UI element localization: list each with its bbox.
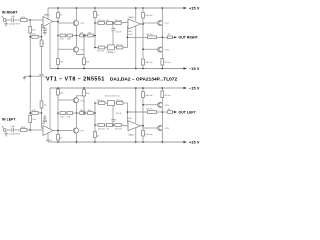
wire VT7 base bbox=[58, 130, 73, 132]
svg-text:+15 V: +15 V bbox=[189, 7, 200, 11]
op-amp DA1.1 V- supply wire bbox=[49, 24, 51, 68]
trimmer RP1 bbox=[108, 42, 117, 50]
wire bbox=[85, 112, 87, 114]
resistor R9 bbox=[98, 22, 106, 25]
junction x30 row77 bbox=[29, 75, 31, 77]
resistor R22 row113 bbox=[32, 112, 42, 115]
svg-text:−15 V: −15 V bbox=[189, 87, 200, 91]
ground below C2 bbox=[43, 33, 47, 35]
junction x58 emitter row bbox=[57, 35, 59, 37]
wire VT8 emitter to out row2 bbox=[161, 112, 163, 125]
wire VT1 collector to rail bbox=[76, 8, 78, 20]
junction x30 row37 bbox=[29, 36, 31, 38]
svg-text:DA1.1: DA1.1 bbox=[44, 14, 51, 17]
resistor R38a from bottom rail bbox=[142, 98, 145, 143]
wire VT4 base bbox=[143, 48, 158, 50]
wire VT5 emitter bbox=[77, 96, 85, 98]
svg-text:68 Ом: 68 Ом bbox=[147, 34, 154, 36]
transistor VT8 bbox=[158, 125, 163, 130]
+15V top rail bbox=[48, 7, 187, 9]
wire inverting input up bbox=[42, 113, 44, 128]
svg-text:68 Ом: 68 Ом bbox=[117, 100, 124, 102]
wire VT5 collector down bbox=[76, 103, 78, 113]
resistor R30 from bottom rail bbox=[94, 103, 97, 143]
svg-text:OUT LEFT: OUT LEFT bbox=[179, 110, 197, 114]
svg-text:DA1,DA2 – OPA2134P...TL072: DA1,DA2 – OPA2134P...TL072 bbox=[110, 77, 177, 83]
resistor R26 bbox=[60, 112, 66, 115]
junction R37 rail2 bbox=[83, 87, 85, 89]
resistor R32 bbox=[106, 124, 114, 127]
svg-text:VT1 – VT8 – 2N5551: VT1 – VT8 – 2N5551 bbox=[46, 76, 105, 82]
wire bbox=[66, 35, 67, 37]
ground at input jack bbox=[4, 21, 8, 26]
+15V bottom rail bbox=[48, 141, 187, 143]
svg-text:68 Ом: 68 Ом bbox=[147, 109, 154, 111]
resistor R12 bbox=[99, 46, 108, 49]
ground at input jack XS2 bbox=[4, 131, 8, 136]
svg-text:СМЕЩ. 0: СМЕЩ. 0 bbox=[107, 52, 117, 54]
junction DA2.2 V+ rail bbox=[135, 141, 137, 143]
resistor R25 vertical from bottom rail bbox=[57, 113, 60, 142]
resistor R40 out row2 bbox=[148, 111, 168, 114]
wire VT5 base bbox=[58, 99, 73, 101]
resistor R21 x40.5 lower bbox=[40, 101, 43, 113]
op-amp DA2.2 V+ supply wire bbox=[135, 128, 137, 142]
wire VT1 emitter bbox=[76, 26, 78, 36]
out row wire bbox=[128, 36, 148, 38]
junction emitter out row2 bbox=[162, 111, 164, 113]
junction DA1.2 V+ rail bbox=[135, 7, 137, 9]
node B2 junction on bottom rail x58 bbox=[57, 141, 59, 143]
resistor R40b out bbox=[167, 111, 177, 114]
wire bbox=[85, 35, 87, 37]
junction R41 rail2 bbox=[162, 87, 164, 89]
wire bbox=[66, 112, 67, 114]
wire VT7 emitter bbox=[76, 113, 78, 128]
svg-text:IN RIGHT: IN RIGHT bbox=[2, 11, 18, 15]
resistor R20 row37 bbox=[32, 35, 42, 38]
resistor R36 vertical bbox=[57, 88, 60, 95]
wire x58 up bbox=[57, 95, 59, 113]
wire VT6 base bbox=[143, 104, 158, 106]
node DA2.1 output junction bbox=[57, 130, 59, 132]
ground row77 bbox=[23, 76, 27, 80]
input jack XS1 bbox=[2, 16, 12, 22]
transistor VT5 bbox=[73, 98, 78, 103]
junction DA2.2 out bbox=[142, 125, 144, 127]
svg-text:300 Ом: 300 Ом bbox=[145, 95, 153, 97]
svg-text:−15 V: −15 V bbox=[189, 67, 200, 71]
capacitor C1 bbox=[12, 18, 22, 22]
trimmer row wire bbox=[95, 47, 99, 49]
transistor VT4 bbox=[158, 47, 163, 52]
svg-text:100 Ом: 100 Ом bbox=[98, 20, 106, 22]
junction R36 rail2 bbox=[57, 87, 59, 89]
node B junction on rail x58 bbox=[57, 7, 59, 9]
wire x30 long vertical bbox=[29, 37, 31, 116]
svg-text:100 Ом: 100 Ом bbox=[145, 134, 153, 136]
-15V rail upper bbox=[50, 67, 187, 69]
junction wiper cap tap2 bbox=[112, 124, 114, 126]
resistor R7 bbox=[88, 34, 95, 37]
wire VT3 emitter bbox=[77, 52, 85, 54]
ground above C7 bbox=[43, 116, 47, 118]
wire VT4 collector up to out row bbox=[161, 37, 163, 47]
capacitor C9 wiper chain2 bbox=[111, 107, 115, 125]
resistor R28 bbox=[80, 112, 85, 115]
junction VT2 collector rail bbox=[162, 7, 164, 9]
resistor R41 emitter vertical bbox=[161, 88, 164, 102]
wire bbox=[73, 35, 80, 37]
svg-text:1 µF: 1 µF bbox=[11, 16, 16, 18]
op-amp DA2.1 bbox=[43, 126, 58, 136]
svg-text:68 Ом: 68 Ом bbox=[117, 44, 124, 46]
resistor R16 vertical bbox=[142, 59, 145, 69]
wire VT8 collector to bottom rail bbox=[161, 131, 163, 142]
svg-text:82 Ом: 82 Ом bbox=[165, 62, 172, 64]
junction base2 x143 bbox=[142, 104, 144, 106]
junction R15 rail bbox=[83, 68, 85, 70]
junction DA1.2 Vminus rail bbox=[135, 68, 137, 70]
wire VT2 collector to rail bbox=[161, 8, 163, 20]
wire VT3 base bbox=[58, 48, 73, 50]
svg-text:0.25µФ К73: 0.25µФ К73 bbox=[9, 133, 21, 136]
junction R14 rail bbox=[57, 68, 59, 70]
wire VT2 base from x143 bbox=[143, 22, 158, 24]
resistor R2 vertical bbox=[29, 20, 32, 37]
junction VT8 collector rail bbox=[162, 141, 164, 143]
node out junction x143 bottom rail bbox=[142, 141, 144, 143]
wire VT6 collector down to out row2 bbox=[161, 107, 163, 112]
op-amp DA1.2 V- supply wire bbox=[135, 26, 137, 69]
svg-text:100 Ом: 100 Ом bbox=[97, 50, 105, 52]
node out junction x143 rail bbox=[142, 7, 144, 9]
resistor R1 bbox=[21, 19, 44, 22]
wire series row start bbox=[95, 22, 98, 24]
resistor R24 bbox=[21, 129, 44, 132]
junction VT7 collector rail bbox=[76, 141, 78, 143]
junction VT1 collector rail bbox=[76, 7, 78, 9]
resistor R31 bbox=[98, 124, 106, 127]
resistor R14 vertical bbox=[57, 59, 60, 69]
capacitor C4 wiper chain bbox=[111, 23, 115, 42]
junction R19 rail bbox=[162, 68, 164, 70]
transistor VT3 bbox=[73, 47, 78, 52]
op-amp DA2.2 bbox=[128, 121, 143, 131]
resistor R29 bbox=[88, 112, 95, 115]
svg-text:DA1.2: DA1.2 bbox=[129, 16, 136, 19]
svg-text:100 Ом: 100 Ом bbox=[145, 15, 153, 17]
svg-text:DA2.1: DA2.1 bbox=[46, 139, 53, 142]
transistor VT7 bbox=[73, 128, 78, 134]
resistor R3 vertical from rail bbox=[57, 8, 60, 36]
svg-text:100 Ом: 100 Ом bbox=[98, 129, 106, 131]
junction DA1.2 out bbox=[142, 23, 144, 25]
resistor R23 x30 vertical bbox=[29, 116, 32, 131]
junction x95 series row bbox=[94, 22, 96, 24]
op-amp supply wire from +15 bottom rail bbox=[47, 133, 49, 142]
junction x95 series row2 bbox=[94, 124, 96, 126]
junction feedback out row bbox=[127, 37, 129, 39]
wire VT1 base bbox=[58, 22, 73, 24]
wire bbox=[73, 112, 80, 114]
wire series row2 start bbox=[95, 124, 98, 126]
resistor R8 from rail bbox=[94, 7, 97, 47]
resistor R27 bbox=[67, 112, 73, 115]
wire inverting input down bbox=[42, 25, 44, 37]
resistor R6 bbox=[80, 34, 85, 37]
wire x58 down bbox=[57, 36, 59, 59]
junction x95 trimmer row2 bbox=[94, 102, 96, 104]
svg-text:300 Ом: 300 Ом bbox=[145, 62, 153, 64]
-15V rail lower bbox=[50, 87, 187, 89]
wire VT7 collector to bottom rail bbox=[76, 133, 78, 142]
junction x95 trimmer row bbox=[94, 47, 96, 49]
transistor VT1 bbox=[73, 20, 78, 26]
resistor R16a from rail bbox=[142, 8, 145, 59]
resistor R34 bbox=[99, 102, 108, 105]
junction x30 row113 bbox=[29, 112, 31, 114]
resistor R33 bbox=[115, 124, 128, 127]
op-amp DA1.2 bbox=[128, 19, 143, 29]
resistor R5 bbox=[67, 34, 73, 37]
wire VT3 collector up bbox=[76, 36, 78, 47]
svg-text:100 Ом: 100 Ом bbox=[115, 20, 123, 22]
junction feedback out row2 bbox=[127, 111, 129, 113]
capacitor C6 bbox=[12, 128, 22, 132]
junction x95 emitter row bbox=[94, 35, 96, 37]
junction emitter row2 bbox=[76, 112, 78, 114]
resistor R4 bbox=[60, 34, 66, 37]
out row2 wire bbox=[128, 111, 148, 113]
wire VT8 base from x143 bbox=[143, 127, 158, 129]
wire VT2 emitter to out row bbox=[161, 26, 163, 38]
junction wiper cap tap bbox=[112, 22, 114, 24]
junction x84 emitter row bbox=[83, 35, 85, 37]
svg-text:DA2.2: DA2.2 bbox=[129, 134, 136, 137]
junction x40.5 row37 bbox=[41, 36, 43, 38]
capacitor C7 with ground bbox=[42, 118, 47, 123]
node A junction bbox=[29, 19, 31, 21]
junction base x143 bbox=[142, 48, 144, 50]
junction x58 emitter row2 bbox=[57, 112, 59, 114]
trimmer row2 wire bbox=[95, 102, 99, 104]
svg-text:100 Ом: 100 Ом bbox=[115, 129, 123, 131]
junction x84 emitter row2 bbox=[83, 112, 85, 114]
resistor R18 out bbox=[167, 36, 177, 39]
svg-text:100 Ом: 100 Ом bbox=[97, 100, 105, 102]
resistor R35 bbox=[117, 102, 128, 105]
node DA1.1 output junction bbox=[57, 21, 59, 23]
junction R38 rail2 bbox=[142, 87, 144, 89]
resistor R37 vertical bbox=[83, 88, 86, 113]
svg-text:+15 V: +15 V bbox=[189, 141, 200, 145]
resistor R21a x40.5 vertical bbox=[40, 37, 43, 75]
resistor R38 vertical bbox=[142, 88, 145, 98]
resistor R17 out row bbox=[148, 36, 168, 39]
svg-text:IN LEFT: IN LEFT bbox=[2, 117, 16, 121]
wire noninverting feedback vertical2 bbox=[127, 103, 130, 123]
svg-text:0.25µФ К73: 0.25µФ К73 bbox=[9, 23, 21, 26]
svg-text:82 Ом: 82 Ом bbox=[165, 95, 172, 97]
junction x95 emitter row2 bbox=[94, 112, 96, 114]
junction R16 rail bbox=[142, 68, 144, 70]
junction DA2.2 Vminus rail2 bbox=[135, 87, 137, 89]
junction x40.5 row113 bbox=[41, 112, 43, 114]
capacitor C2 with ground bbox=[42, 27, 47, 32]
svg-text:1 µF: 1 µF bbox=[11, 126, 16, 128]
input jack XS2 bbox=[2, 126, 12, 132]
junction emitter out row bbox=[162, 37, 164, 39]
resistor R15 vertical bbox=[83, 36, 86, 69]
transistor VT6 bbox=[158, 102, 163, 107]
svg-text:100 Ом 100 Ом: 100 Ом 100 Ом bbox=[105, 95, 120, 97]
op-amp DA1.2 V+ supply wire bbox=[135, 8, 137, 21]
junction emitter row bbox=[76, 35, 78, 37]
resistor R13 bbox=[117, 46, 128, 49]
op-amp DA1.1 bbox=[43, 17, 58, 27]
op-amp DA2.1 V- supply wire bbox=[49, 88, 51, 129]
svg-text:OUT RIGHT: OUT RIGHT bbox=[179, 36, 199, 40]
wire noninverting feedback vertical bbox=[127, 27, 130, 48]
resistor R11 bbox=[115, 22, 128, 25]
svg-text:22 пФ: 22 пФ bbox=[116, 112, 122, 115]
transistor VT2 bbox=[158, 20, 163, 25]
op-amp DA2.2 V- supply wire bbox=[135, 88, 137, 123]
wire row77 bbox=[24, 75, 41, 77]
trimmer RP2 bbox=[108, 101, 117, 108]
capacitor C5 inline x40.5 bbox=[39, 74, 43, 101]
svg-text:22 пФ: 22 пФ bbox=[116, 31, 122, 34]
resistor R19 emitter vertical bbox=[161, 52, 164, 68]
resistor R10 bbox=[106, 22, 114, 25]
node A2 junction bbox=[29, 129, 31, 131]
op-amp supply wire from +15 rail bbox=[47, 8, 49, 19]
